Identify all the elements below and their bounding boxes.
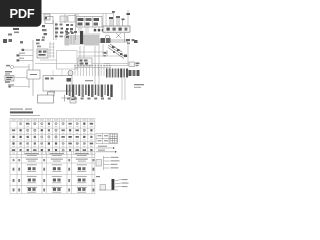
panel outline [57,51,78,70]
specks above bundle [65,31,77,36]
relay pinout diagram [96,156,110,170]
wire harness stub 1 [22,49,34,51]
diagonal bundle specks [112,46,127,57]
wire drops below strip [79,14,103,34]
parts below platform [106,33,125,42]
wire F1 links [11,78,29,87]
coil components above platform [109,16,125,26]
wire right drops [106,10,130,26]
label above band [85,80,93,81]
svg-text:PDF: PDF [10,6,35,21]
table title [10,109,40,116]
ladder connector [49,42,55,58]
comb TB3 bars [106,69,128,78]
connector side labels [96,176,129,187]
connector table grid [10,152,95,194]
specks under band [67,98,111,100]
bundle F crosshatch [85,33,99,46]
wire vertical right [127,44,129,66]
fuse block box [45,17,54,41]
plus mark [61,95,68,102]
wire trunk verticals [29,40,33,96]
label specks E [36,39,45,47]
mini table dense part [110,134,117,143]
relay cluster K1 [55,24,63,38]
wire harness stub 2 [17,53,34,57]
terminal comb TB2 [74,68,111,77]
motor M1 [67,71,74,82]
switch S2 [27,70,40,79]
dark cells right of bundle [101,38,111,43]
wire verticals lower right [122,78,125,100]
connector CN2 [44,14,50,20]
relay pinout labels [111,157,120,169]
label text block left [5,71,12,75]
label right of R5 [136,63,140,67]
box around relays [56,14,76,40]
node circle TO [6,65,29,69]
label lower right [134,84,144,88]
fuse box F1 [5,76,14,82]
junction box J2 [37,49,48,58]
label specks column left [42,25,47,38]
dark connector bar [80,31,83,44]
legend table grid [10,119,95,155]
wire legend line 1 [96,146,114,149]
wire diagonal bundle [108,44,124,59]
wire top bus [42,14,113,16]
ECU box U3 [43,69,72,93]
connector table contents [13,153,95,193]
platform connector strip [103,26,130,32]
mini table text [98,135,109,141]
terminal strip TS1 [77,17,103,28]
specks near 104,52 [104,52,107,57]
wire centre verticals [80,44,107,84]
junction dots [94,29,104,31]
legend symbols [12,123,93,154]
small box R5 [129,62,135,67]
legend header text [11,119,93,122]
small comp box [70,97,76,103]
connector barcode band [66,85,113,98]
relay cluster K2 [66,24,74,38]
wire right horizontals [104,64,128,66]
label cluster right [126,39,138,44]
glyph box G2 [78,58,92,66]
connector side view [99,179,121,190]
connector CN6 cells [129,70,140,76]
PDF badge [0,0,42,27]
component tray box [38,92,55,103]
wire mid horizontals [35,52,128,64]
mini table right [96,134,118,144]
wire legend line 2 [96,150,116,153]
wire bundle F horizontals [64,36,128,44]
bundle F left verticals [66,33,74,46]
label 81 [5,82,14,88]
label text under badge [3,28,23,44]
wire harness stub 3 [17,58,34,62]
